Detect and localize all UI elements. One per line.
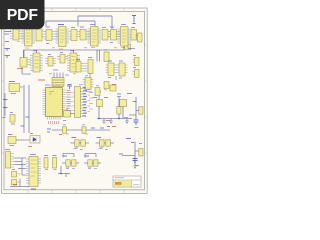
IC U2 [56, 27, 70, 47]
label marks under pair A1 [74, 149, 84, 150]
U14 pin labels red right [67, 91, 71, 113]
connector J1 right edge [136, 33, 143, 42]
diode pair DA1 [75, 140, 80, 146]
capacitor C5 [12, 180, 17, 186]
designator text row1 [25, 25, 126, 28]
wire U15 up [66, 108, 68, 111]
net label blue [21, 117, 30, 126]
IC U18 [8, 137, 30, 146]
transformer T1 [52, 73, 64, 87]
wire top bus run right [78, 16, 112, 30]
label U2 designator [58, 24, 64, 26]
label blue Q1 [93, 97, 97, 99]
resistor pack R9 [53, 156, 57, 170]
ground right chain [133, 166, 137, 168]
connector J4 [6, 152, 15, 169]
wire left margin [4, 93, 6, 116]
wire bus RN1 to U1 [19, 31, 24, 39]
scattered value text red [17, 42, 117, 168]
wires MCU to header [66, 93, 75, 111]
wire RN8 to J1 [128, 36, 138, 49]
wire bus RN3 to U2 [52, 32, 58, 40]
IC U9 [88, 60, 93, 79]
IC U17 small [110, 85, 116, 91]
resistor network RN8 [131, 30, 137, 41]
label blue chain left [47, 129, 51, 132]
transistor Q1 [97, 92, 103, 107]
net labels chain blue [91, 127, 110, 129]
junction dot mid bottom [60, 173, 62, 175]
label blue U19 top [30, 154, 36, 156]
label blue U13 right [20, 86, 23, 88]
wire mid bottom [58, 166, 70, 177]
resistor R3 [10, 115, 15, 125]
page background [0, 0, 149, 198]
wire pair row A2 [96, 142, 115, 144]
IC U15 [64, 111, 75, 118]
label red chain1 [135, 127, 139, 129]
IC U16 small top right [95, 88, 100, 96]
capacitor C1 [104, 82, 109, 89]
value text row1 below [25, 48, 125, 50]
wire top bus run left [24, 47, 125, 62]
sheet outer border [2, 8, 148, 193]
capacitor C6 right [139, 149, 143, 157]
resistor pack R8 [44, 156, 48, 170]
wire U5 under loop [22, 67, 31, 74]
IC U12 [83, 78, 94, 90]
label red C4 C5 [18, 174, 21, 182]
label T1 red [38, 79, 45, 81]
label blue under U19 [31, 188, 36, 190]
bus wire upper mid [46, 21, 95, 27]
capacitor C3 [133, 70, 140, 78]
IC U1 [22, 27, 36, 47]
wire pair row B2 [84, 162, 101, 164]
diode pair DB4 [94, 160, 98, 166]
resistor R4 [117, 97, 121, 115]
header J3 [75, 87, 94, 118]
resistor R7 [82, 127, 86, 133]
resistor network RN6 [102, 30, 110, 41]
scattered net label text blue [8, 27, 142, 170]
IC U7 [67, 53, 80, 72]
label blue J4 [5, 149, 10, 151]
label blue Q2 [104, 94, 121, 98]
MCU U14 QFP [43, 85, 66, 120]
power port C [3, 99, 8, 101]
resistor pack R2 [57, 55, 68, 64]
resistor network RN1 [10, 29, 19, 40]
IC U6 [30, 53, 43, 72]
resistor network RN7 [109, 30, 117, 41]
label blue right chain [119, 143, 134, 155]
wire corner above B1 [63, 154, 74, 158]
diode pair DA4 [106, 140, 111, 146]
wire pair row B1 [62, 162, 79, 164]
label blue T1 top [53, 69, 58, 71]
ground G3 [125, 119, 129, 124]
diode pair DA3 [100, 140, 105, 146]
wire serial chain row4 top [52, 129, 110, 131]
PDF badge [0, 0, 45, 29]
ground G2 [109, 119, 113, 124]
resistor network RN2 [36, 29, 44, 41]
wire bus RN7 to U4 [117, 32, 121, 40]
label red bottom left [13, 184, 17, 186]
diode pair DB2 [72, 160, 76, 166]
label blue U10 U11 [76, 58, 123, 62]
label red left border [3, 117, 6, 119]
label marks under pair A2 [99, 149, 109, 150]
IC U4 [118, 27, 132, 47]
label red chain [59, 134, 62, 136]
IC U8 [104, 52, 109, 62]
label blue pair A1 [72, 137, 77, 139]
power flag VCC top right [132, 16, 136, 24]
label blue pair A2 [97, 137, 102, 139]
label red rail B [112, 126, 116, 128]
net label chain1 top [127, 94, 137, 102]
label red right chain [136, 165, 140, 167]
capacitor C2 [133, 58, 140, 66]
IC U13 [9, 82, 20, 94]
sheet inner border [4, 11, 145, 189]
connector J2 [76, 62, 88, 73]
label red rail A [106, 120, 110, 122]
U14 pin labels red bottom [49, 121, 59, 124]
transistor Q2 [120, 100, 127, 107]
power port left B [5, 56, 11, 59]
label blue chain1 left [124, 117, 128, 119]
IC U10 [106, 63, 117, 76]
net label right zone blue [126, 138, 131, 140]
resistor network RN3 [44, 30, 53, 41]
wire pair row A1 [71, 142, 90, 144]
ground G1 [102, 119, 106, 124]
wire right chain vertical [122, 142, 139, 167]
border zone ticks [2, 8, 148, 193]
diode D1 boxed [28, 136, 40, 147]
resistor network RN4 [69, 30, 77, 41]
wire bottom left [10, 179, 29, 187]
capacitor C7 symbol [133, 159, 138, 164]
wire bus J4 to U19 [14, 158, 26, 175]
label marks under pair B rows [66, 168, 97, 170]
power flag above U14 [67, 85, 72, 90]
wire left vertical pair [24, 85, 29, 133]
label blue pair B1 [63, 155, 68, 157]
svg-text:PDF: PDF [7, 7, 39, 24]
IC U19 tall DIP [26, 157, 41, 187]
IC U11 [116, 63, 128, 80]
capacitor C8 chain1 [134, 120, 139, 125]
label text [5, 32, 12, 42]
label red U18 top [9, 134, 13, 136]
resistor R5 chain right [129, 97, 143, 120]
power port left A [5, 49, 11, 52]
diode pair DB1 [66, 160, 70, 166]
capacitor C4 [12, 172, 17, 178]
label marks under U12 [79, 85, 89, 92]
label red U12 [112, 84, 116, 86]
diode pair DB3 [88, 160, 92, 166]
resistor R6 [63, 127, 67, 133]
label U5 red [17, 68, 23, 70]
label blue pair B2 [85, 155, 90, 157]
resistor pack R1 [45, 57, 56, 67]
wire transistor rail [97, 107, 132, 119]
ferrite bead FB1 on bus [124, 45, 130, 50]
resistor network RN5 [78, 30, 87, 41]
junction dots [99, 118, 119, 120]
power port D [3, 107, 8, 109]
IC U3 [88, 27, 102, 47]
wire corner above B2 [85, 154, 96, 158]
diode pair DA2 [81, 140, 86, 146]
title block [113, 176, 141, 187]
wire bus RN5 to U3 [86, 32, 90, 40]
label blue above transformer [65, 74, 69, 76]
IC U5 [20, 50, 31, 67]
